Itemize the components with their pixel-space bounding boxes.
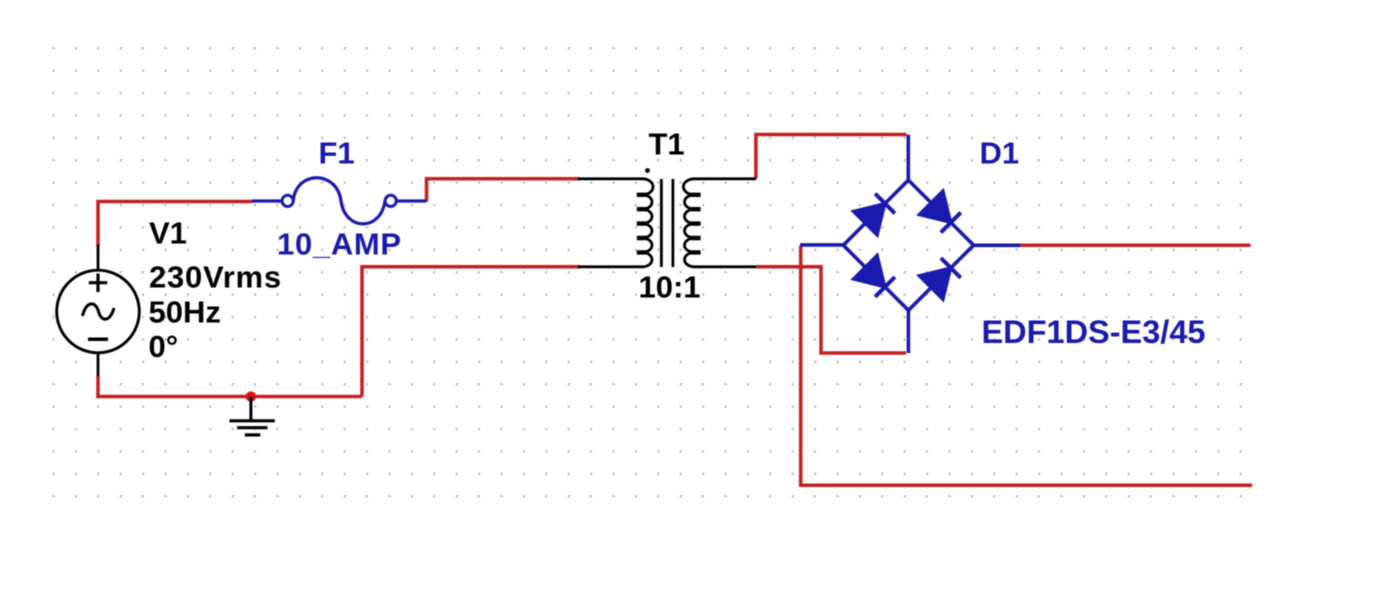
transformer T1 core line 1 (660, 179, 663, 267)
diode lower-left bar (875, 277, 895, 297)
svg-text:D1: D1 (980, 135, 1020, 170)
ground bar 2 (237, 426, 268, 429)
bridge D1 bottom pin (907, 310, 911, 353)
source V1 plus (89, 274, 107, 293)
junction dot ground node (246, 391, 256, 401)
fuse F1 right lead (396, 199, 426, 202)
svg-text:0°: 0° (149, 329, 179, 364)
svg-text:T1: T1 (649, 126, 685, 161)
svg-text:EDF1DS-E3/45: EDF1DS-E3/45 (982, 314, 1206, 350)
ground stem (249, 397, 252, 421)
transformer T1 primary winding (643, 179, 654, 267)
transformer T1 secondary winding ticks (690, 195, 700, 253)
fuse F1 left terminal (282, 195, 293, 206)
wire transformer primary bottom to ground rail (362, 267, 580, 397)
transformer T1 polarity dot (645, 168, 650, 173)
wire ground rail bottom (96, 395, 362, 399)
source V1 sine (83, 304, 115, 319)
diode upper-right bar (941, 213, 961, 233)
bridge D1 diamond (843, 180, 973, 310)
bridge D1 left pin (800, 243, 844, 247)
transformer T1 secondary top lead (694, 177, 756, 180)
transformer T1 primary top lead (578, 177, 643, 180)
transformer T1 core line 2 (672, 179, 675, 267)
diode upper-right triangle (919, 191, 951, 223)
wire transformer secondary top to bridge top (756, 135, 907, 179)
wire V1 bottom lead red (96, 376, 100, 399)
V1 top lead (97, 245, 100, 272)
transformer T1 primary bottom lead (578, 265, 643, 268)
transformer T1 secondary winding (683, 179, 694, 267)
ground bar 3 (245, 433, 260, 436)
V1 bottom lead (97, 353, 100, 377)
transformer T1 primary winding ticks (637, 195, 647, 253)
bridge D1 right pin (974, 244, 1021, 248)
wire bridge right vertex output (1020, 244, 1251, 248)
fuse F1 right terminal (385, 195, 396, 206)
svg-text:50Hz: 50Hz (149, 294, 221, 329)
diode lower-left triangle (853, 255, 885, 287)
wire fuse to transformer primary top (427, 179, 580, 202)
svg-text:F1: F1 (319, 135, 355, 170)
diode lower-right triangle (919, 268, 951, 300)
wire V1 top to fuse (98, 202, 253, 247)
ground bar 1 (230, 419, 275, 422)
diode upper-left bar (875, 194, 895, 214)
fuse F1 body (293, 178, 385, 224)
fuse F1 left lead (252, 199, 282, 202)
wire transformer secondary bottom to bridge bottom (756, 267, 906, 353)
svg-text:10_AMP: 10_AMP (277, 227, 402, 262)
svg-text:230Vrms: 230Vrms (149, 260, 282, 295)
wire bridge left vertex to bottom rail (801, 246, 1252, 485)
source V1 minus (88, 338, 108, 342)
source V1 circle (57, 270, 140, 353)
bridge D1 top pin (906, 135, 910, 180)
svg-text:V1: V1 (149, 216, 187, 251)
diode lower-right bar (941, 258, 961, 278)
svg-text:10:1: 10:1 (639, 270, 701, 305)
diode upper-left triangle (853, 204, 885, 236)
transformer T1 secondary bottom lead (694, 265, 756, 268)
